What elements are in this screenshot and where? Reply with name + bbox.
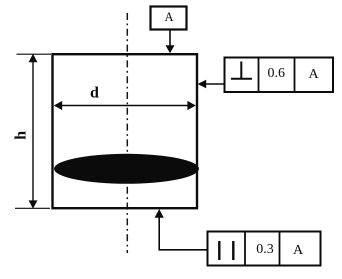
dimension h: top extension line <box>17 53 52 55</box>
svg-text:A: A <box>308 67 319 82</box>
dimension h: bottom extension line <box>15 207 50 209</box>
parallelism symbol bar 1 <box>218 241 220 260</box>
svg-text:0.3: 0.3 <box>256 242 274 257</box>
FCF1 leader wire <box>205 83 224 85</box>
svg-text:A: A <box>164 10 173 24</box>
datum A leader arrowhead <box>166 45 175 53</box>
FCF2 leader wire vertical <box>158 216 160 250</box>
dimension d: left arrowhead <box>54 101 62 110</box>
FCF1 leader arrowhead <box>198 80 207 89</box>
perpendicularity symbol <box>240 62 242 79</box>
FCF2 leader arrowhead <box>155 209 164 218</box>
svg-text:h: h <box>12 131 29 140</box>
dimension h: top arrowhead <box>29 54 38 62</box>
FCF1 divider 2 <box>294 58 296 93</box>
dimension h: line <box>32 60 34 202</box>
ellipse (internal face, filled) <box>54 154 199 184</box>
cylinder body rectangle <box>53 54 198 208</box>
perpendicularity feature control frame <box>225 58 334 93</box>
svg-text:A: A <box>293 243 304 258</box>
FCF1 divider 1 <box>258 58 260 93</box>
dimension h: bottom arrowhead <box>29 200 38 208</box>
FCF2 divider 1 <box>244 232 246 266</box>
parallelism feature control frame <box>208 232 321 266</box>
centerline (vertical dash-dot axis) <box>126 13 128 253</box>
dimension d: right arrowhead <box>187 101 195 110</box>
FCF2 leader wire horizontal <box>159 249 208 251</box>
svg-text:d: d <box>90 85 99 102</box>
parallelism symbol bar 2 <box>232 241 234 260</box>
FCF2 divider 2 <box>279 232 281 266</box>
svg-text:0.6: 0.6 <box>268 66 286 81</box>
datum A box <box>151 7 187 30</box>
dimension d: line <box>60 105 190 107</box>
datum A leader wire <box>169 30 171 47</box>
